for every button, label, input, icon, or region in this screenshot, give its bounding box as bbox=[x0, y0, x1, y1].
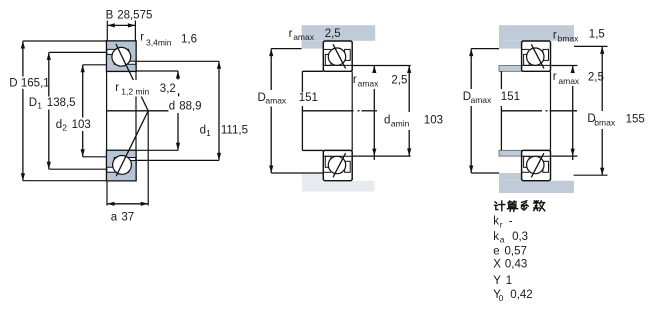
svg-text:amin: amin bbox=[391, 119, 410, 129]
dimension line damin bbox=[408, 66, 410, 156]
housing shoulder block (top left) bbox=[302, 41, 324, 49]
extension line d bottom bbox=[136, 149, 178, 151]
a extension line left (bearing face extended) bbox=[106, 181, 108, 206]
数 bbox=[534, 201, 539, 206]
dimension line d1 bbox=[217, 61, 221, 160]
contact angle line through top ball to load centre bbox=[116, 44, 148, 111]
inner ring (bottom section, shaded) bbox=[107, 150, 136, 167]
extension line Damax bottom (right fig) bbox=[471, 172, 499, 174]
svg-text:amax: amax bbox=[358, 78, 380, 88]
dimension line D1 bbox=[47, 52, 51, 169]
svg-text:r: r bbox=[500, 219, 503, 229]
axis centreline (middle fig) bbox=[302, 110, 353, 112]
shaft abutment block (top left) bbox=[499, 66, 522, 72]
svg-text:1,5: 1,5 bbox=[589, 29, 605, 41]
dimension line D bbox=[21, 41, 25, 181]
extension line d1 bottom bbox=[136, 159, 219, 161]
bearing top section outline (right fig) bbox=[522, 41, 551, 71]
svg-text:amax: amax bbox=[558, 76, 580, 86]
svg-text:1: 1 bbox=[506, 275, 512, 287]
axis centreline (right fig) bbox=[501, 110, 542, 112]
extension line Dbmax top bbox=[574, 45, 608, 47]
svg-text:151: 151 bbox=[501, 91, 520, 103]
svg-text:bmax: bmax bbox=[558, 34, 580, 44]
bearing bottom section outline (middle fig) bbox=[323, 150, 352, 180]
svg-text:d: d bbox=[56, 119, 62, 131]
extension line Dbmax bottom bbox=[574, 174, 608, 176]
axis centreline (left fig) bbox=[107, 110, 169, 112]
extension line damin top bbox=[352, 65, 411, 67]
svg-text:3,4min: 3,4min bbox=[146, 37, 172, 47]
bearing right edge through bore gap (right fig) bbox=[550, 71, 552, 150]
inner ring shoulder line (bottom) bbox=[522, 155, 551, 157]
svg-text:0,43: 0,43 bbox=[505, 259, 527, 271]
outer race bracket right (top) bbox=[543, 49, 549, 60]
svg-text:138,5: 138,5 bbox=[47, 97, 76, 109]
extension line r amax bottom (right fig) bbox=[551, 155, 577, 157]
bearing bottom section body (left fig) bbox=[107, 150, 136, 180]
ball (top) bbox=[112, 47, 131, 66]
svg-text:e: e bbox=[493, 245, 499, 257]
系 bbox=[522, 201, 527, 203]
a extension line right (from load centre) bbox=[147, 111, 149, 206]
svg-text:r: r bbox=[289, 28, 293, 40]
svg-text:88,9: 88,9 bbox=[179, 100, 201, 112]
housing abutment shading (top) bbox=[499, 25, 574, 41]
svg-text:3,2: 3,2 bbox=[160, 83, 176, 95]
bearing top section body (left fig) bbox=[107, 41, 136, 71]
outer race line left (bottom) bbox=[522, 171, 530, 173]
svg-text:0,42: 0,42 bbox=[510, 289, 532, 301]
svg-text:0,57: 0,57 bbox=[505, 245, 527, 257]
contact angle line (middle fig bottom) bbox=[333, 153, 346, 177]
svg-text:1,2 min: 1,2 min bbox=[121, 86, 149, 96]
svg-text:155: 155 bbox=[626, 114, 645, 126]
dimension line d bbox=[176, 71, 180, 150]
title 计算系数 (drawn as strokes) bbox=[495, 201, 545, 212]
housing abutment shading (top) bbox=[302, 25, 376, 41]
extension line Damax bottom bbox=[271, 172, 323, 174]
outer ring (top, shaded) bbox=[107, 41, 136, 61]
extension line Damax top bbox=[271, 48, 301, 50]
svg-text:d: d bbox=[200, 124, 206, 136]
inner ring shoulder line (bottom) bbox=[323, 155, 352, 157]
extension line d1 top bbox=[136, 60, 219, 62]
ball (right fig bottom) bbox=[527, 156, 544, 173]
svg-text:2,5: 2,5 bbox=[588, 72, 604, 84]
outer race line left (bottom) bbox=[323, 171, 331, 173]
svg-text:r: r bbox=[553, 71, 557, 83]
ball (bottom) bbox=[113, 156, 132, 175]
svg-text:k: k bbox=[493, 231, 499, 243]
bearing bottom section outline (right fig) bbox=[522, 150, 551, 180]
svg-text:bmax: bmax bbox=[594, 117, 616, 127]
svg-text:2: 2 bbox=[62, 123, 67, 133]
svg-text:X: X bbox=[493, 259, 501, 271]
outer race bracket right (bottom) bbox=[543, 161, 549, 172]
svg-text:amax: amax bbox=[265, 96, 287, 106]
outer race bracket right (top) bbox=[345, 49, 351, 60]
extension line damin bottom bbox=[352, 155, 411, 157]
svg-text:151: 151 bbox=[299, 92, 318, 104]
svg-text:k: k bbox=[493, 216, 499, 228]
inner ring shoulder line (top) bbox=[522, 64, 551, 66]
outer ring (bottom, shaded) bbox=[107, 161, 136, 181]
extension line d top bbox=[136, 70, 178, 72]
svg-text:1: 1 bbox=[37, 101, 42, 111]
shaft end line (right fig) bbox=[500, 71, 502, 150]
svg-text:D: D bbox=[9, 78, 17, 90]
contact angle line (right fig bottom) bbox=[531, 153, 544, 177]
svg-text:B: B bbox=[106, 10, 114, 22]
svg-text:r: r bbox=[140, 31, 144, 43]
outer race line left (top) bbox=[522, 48, 530, 50]
svg-text:2,5: 2,5 bbox=[391, 75, 407, 87]
svg-text:r: r bbox=[115, 82, 119, 94]
svg-text:a: a bbox=[111, 212, 118, 224]
svg-text:amax: amax bbox=[293, 32, 315, 42]
svg-text:103: 103 bbox=[424, 114, 443, 126]
svg-text:D: D bbox=[29, 97, 37, 109]
contact angle line through bottom ball to load centre bbox=[116, 111, 148, 176]
dimension line B bbox=[107, 24, 135, 26]
svg-text:28,575: 28,575 bbox=[117, 10, 152, 22]
housing shoulder block (top left) bbox=[499, 41, 522, 49]
ball (right fig top) bbox=[527, 48, 544, 65]
svg-text:d: d bbox=[384, 114, 390, 126]
svg-text:Y: Y bbox=[493, 275, 501, 287]
extension line D top bbox=[23, 40, 107, 42]
B extension line left bbox=[106, 21, 108, 42]
extension line D1 bottom bbox=[49, 168, 107, 170]
算 bbox=[508, 201, 516, 203]
dimension line Damax (right fig) bbox=[470, 49, 472, 173]
svg-text:r: r bbox=[353, 74, 357, 86]
svg-text:a: a bbox=[500, 235, 505, 245]
outer race bracket right (bottom) bbox=[345, 161, 351, 172]
extension line r amax top (right fig) bbox=[551, 65, 577, 67]
svg-text:1,6: 1,6 bbox=[181, 34, 197, 46]
contact angle line (middle fig top) bbox=[333, 44, 346, 68]
housing abutment shading (bottom) bbox=[499, 181, 574, 193]
shaft abutment block (bottom left) bbox=[499, 150, 522, 156]
B extension line right bbox=[134, 21, 136, 42]
svg-text:amax: amax bbox=[471, 95, 493, 105]
svg-text:37: 37 bbox=[121, 212, 134, 224]
extension line Damax top (right fig) bbox=[471, 48, 499, 50]
extension line d2 top bbox=[83, 64, 107, 66]
outer race line left (top) bbox=[323, 48, 331, 50]
svg-text:1: 1 bbox=[206, 128, 211, 138]
bearing right edge through bore gap (middle fig) bbox=[351, 71, 353, 150]
extension line D1 top bbox=[49, 51, 107, 53]
svg-text:2,5: 2,5 bbox=[325, 28, 341, 40]
bearing right edge through bore gap (left fig) bbox=[135, 71, 137, 150]
bearing left edge through bore gap (left fig) bbox=[106, 71, 108, 150]
svg-text:0,3: 0,3 bbox=[512, 231, 528, 243]
bearing top section outline (middle fig) bbox=[323, 41, 352, 71]
inner ring shoulder line (top) bbox=[323, 64, 352, 66]
svg-text:d: d bbox=[169, 100, 175, 112]
dimension line Damax bbox=[270, 49, 272, 173]
contact angle line (right fig top) bbox=[531, 44, 544, 68]
ball (middle fig top) bbox=[328, 48, 345, 65]
housing shading mirrored (bottom, faint) bbox=[302, 181, 375, 192]
housing shoulder block (bottom left) bbox=[499, 173, 522, 181]
dimension line r amax (right fig) bbox=[572, 66, 574, 161]
inner race bracket left (top) bbox=[325, 54, 331, 65]
dimension line a bbox=[107, 203, 148, 205]
inner race bracket left (bottom) bbox=[325, 156, 331, 167]
extension line D bottom bbox=[23, 180, 107, 182]
计 bbox=[495, 202, 497, 203]
svg-text:-: - bbox=[509, 216, 513, 228]
svg-text:111,5: 111,5 bbox=[221, 124, 248, 136]
svg-text:165,1: 165,1 bbox=[21, 78, 50, 90]
inner race bracket left (top) bbox=[524, 54, 530, 65]
dimension line Dbmax bbox=[601, 46, 603, 175]
svg-text:r: r bbox=[553, 30, 557, 42]
ball (middle fig bottom) bbox=[328, 156, 345, 173]
housing shoulder mirrored (bottom left, faint) bbox=[302, 173, 323, 181]
svg-text:103: 103 bbox=[72, 119, 91, 131]
inner ring (top section, shaded) bbox=[107, 54, 136, 71]
svg-text:0: 0 bbox=[499, 293, 504, 303]
halo behind r 1,2 min label bbox=[112, 80, 177, 97]
shaft outline left of bearing bbox=[302, 71, 323, 150]
inner race bracket left (bottom) bbox=[524, 156, 530, 167]
dimension line d2 bbox=[81, 65, 85, 157]
extension line d2 bottom bbox=[83, 156, 107, 158]
dimension line r amax (right of section) bbox=[373, 66, 375, 160]
